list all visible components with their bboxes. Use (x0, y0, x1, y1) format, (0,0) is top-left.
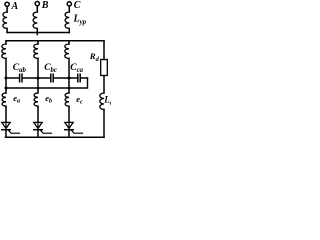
svg-text:ec: ec (76, 94, 83, 106)
cathode bus bottom (6, 136, 105, 138)
inductor primary phase B (33, 12, 37, 29)
inductor primary phase A (3, 12, 7, 29)
svg-text:ea: ea (13, 93, 20, 105)
wire resistor to Ld (103, 76, 105, 94)
node rail c / Cbc-Cca (68, 77, 71, 80)
svg-text:Lур: Lур (73, 14, 87, 27)
capacitor Cbc (38, 74, 69, 82)
wire coil B to bus1 (36, 29, 38, 35)
resistor Rd (101, 60, 108, 76)
bus1 primary star point (7, 32, 69, 34)
svg-text:Cca: Cca (70, 63, 83, 74)
bus2 secondary star point (6, 40, 104, 42)
wire rail b upper (37, 58, 39, 93)
emf source ea coil (2, 93, 6, 106)
svg-text:Cbc: Cbc (44, 63, 57, 74)
node rail a / Cca return (5, 87, 8, 90)
thyristor VS2 (34, 122, 52, 137)
wire ec to thyristor 3 (68, 106, 70, 122)
junction blob rail c crossing (68, 87, 71, 90)
emf source ec coil (65, 93, 69, 106)
wire bus2 to coil b (37, 41, 39, 44)
inductor secondary phase c (65, 44, 69, 58)
thyristor VS3 (65, 122, 83, 137)
capacitor Cab (6, 74, 38, 82)
wire terminal A to coil (6, 7, 8, 13)
svg-text:C: C (74, 0, 81, 11)
wire coil A to bus1 (6, 29, 8, 33)
inductor Ld (100, 93, 104, 110)
wire bus2 to resistor (103, 41, 105, 60)
emf source eb coil (34, 93, 38, 106)
svg-text:Ld: Ld (103, 95, 111, 107)
wire ea to thyristor 1 (5, 106, 7, 122)
wire Cca return to phase a (6, 78, 88, 88)
junction blob rail b crossing (37, 87, 40, 90)
inductor secondary phase b (34, 44, 38, 58)
node rail b / Cab-Cbc (37, 77, 40, 80)
wire terminal B to coil (36, 6, 38, 12)
terminal C (67, 2, 71, 6)
svg-text:Rd: Rd (89, 51, 100, 63)
wire rail a upper (5, 58, 7, 93)
svg-text:Cab: Cab (13, 63, 27, 74)
wire rail c upper (68, 58, 70, 93)
node rail a / Cab (5, 77, 8, 80)
wire bus2 to coil c (68, 41, 70, 44)
terminal B (35, 2, 39, 6)
svg-text:A: A (11, 1, 19, 12)
inductor secondary phase a (2, 44, 6, 58)
svg-text:B: B (41, 0, 49, 11)
wire eb to thyristor 2 (37, 106, 39, 122)
thyristor VS1 (2, 122, 20, 137)
wire Ld to cathode bus (103, 110, 105, 138)
svg-text:eb: eb (45, 93, 52, 105)
capacitor Cca (69, 74, 88, 82)
wire coil C to bus1 (68, 29, 70, 33)
inductor primary phase C (65, 12, 69, 29)
wire bus2 to coil a (5, 41, 7, 44)
wire terminal C to coil (68, 6, 70, 12)
terminal A (5, 2, 9, 6)
